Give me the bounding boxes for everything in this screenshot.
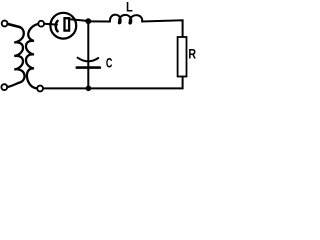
capacitor C straight bottom plate: [77, 66, 100, 69]
terminal T1 (antenna input, top left): [2, 21, 8, 27]
resistor R box: [178, 37, 187, 77]
wire capacitor to node B: [87, 68, 89, 89]
inductor L: [110, 15, 142, 24]
svg-text:R: R: [188, 45, 196, 61]
node B junction dot: [86, 86, 92, 92]
wire T1 to primary coil top: [8, 24, 20, 27]
tube plate box: [65, 18, 70, 30]
tube V envelope: [50, 13, 76, 39]
svg-text:C: C: [106, 55, 113, 70]
terminal T4 (secondary bottom): [37, 86, 43, 92]
wire inductor to top right corner, down to resistor: [142, 20, 182, 37]
tube cathode: [56, 21, 58, 31]
transformer secondary winding: [26, 24, 38, 88]
terminal T3 (secondary top): [38, 21, 44, 27]
wire T3 to tube cathode: [44, 23, 57, 26]
node A junction dot: [85, 18, 91, 24]
wire tube plate to node A: [70, 19, 88, 21]
wire node A to inductor: [88, 20, 110, 22]
wire resistor bottom to corner and bottom wire: [43, 77, 183, 89]
svg-text:L: L: [126, 0, 133, 15]
transformer primary winding: [7, 27, 24, 87]
wire node A down to capacitor: [87, 21, 89, 67]
terminal T2 (ground, bottom left): [1, 84, 7, 90]
capacitor C curved top plate: [78, 58, 99, 62]
